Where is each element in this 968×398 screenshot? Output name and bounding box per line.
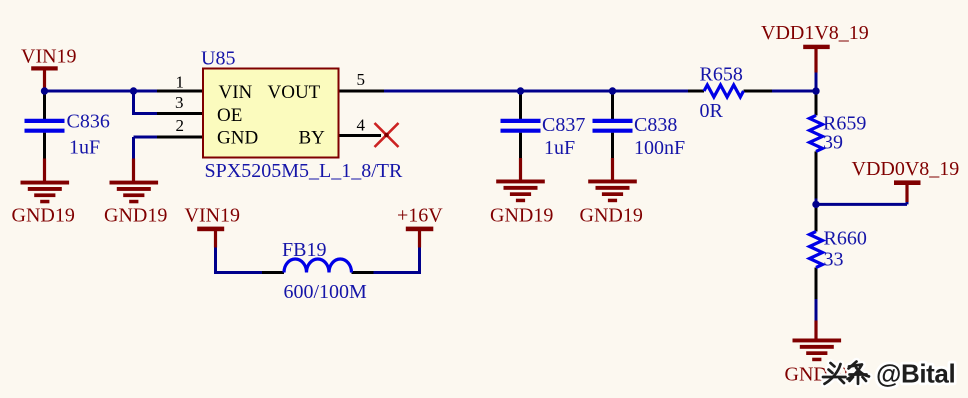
svg-text:BY: BY — [299, 128, 326, 149]
svg-text:VDD0V8_19: VDD0V8_19 — [852, 158, 960, 180]
svg-text:VDD1V8_19: VDD1V8_19 — [761, 22, 869, 44]
svg-text:C837: C837 — [542, 114, 585, 136]
svg-text:U85: U85 — [201, 48, 235, 70]
svg-text:R658: R658 — [700, 64, 743, 86]
svg-text:C838: C838 — [634, 114, 677, 136]
svg-text:5: 5 — [357, 70, 366, 89]
svg-text:R660: R660 — [824, 228, 867, 250]
svg-text:SPX5205M5_L_1_8/TR: SPX5205M5_L_1_8/TR — [205, 160, 403, 182]
svg-text:FB19: FB19 — [282, 239, 326, 261]
svg-text:GND19: GND19 — [580, 205, 643, 227]
svg-text:@Bital: @Bital — [876, 359, 955, 389]
svg-text:OE: OE — [217, 105, 242, 126]
svg-text:GND: GND — [217, 128, 258, 149]
svg-text:GND19: GND19 — [12, 205, 75, 227]
svg-text:33: 33 — [824, 248, 844, 270]
svg-text:0R: 0R — [700, 100, 724, 122]
svg-text:3: 3 — [175, 93, 184, 112]
svg-text:+16V: +16V — [397, 205, 443, 227]
svg-text:39: 39 — [823, 131, 843, 153]
svg-text:1uF: 1uF — [69, 137, 100, 159]
svg-text:VIN: VIN — [219, 82, 253, 103]
svg-text:1: 1 — [176, 73, 185, 92]
svg-text:4: 4 — [357, 115, 366, 134]
svg-text:GND19: GND19 — [104, 205, 167, 227]
svg-text:VIN19: VIN19 — [185, 205, 241, 227]
svg-text:GND19: GND19 — [490, 205, 553, 227]
svg-text:VIN19: VIN19 — [21, 46, 77, 68]
svg-text:VOUT: VOUT — [268, 82, 321, 103]
svg-text:2: 2 — [176, 116, 185, 135]
svg-text:C836: C836 — [67, 111, 110, 133]
svg-text:1uF: 1uF — [544, 137, 575, 159]
svg-text:600/100M: 600/100M — [284, 281, 368, 303]
svg-text:100nF: 100nF — [634, 137, 685, 159]
